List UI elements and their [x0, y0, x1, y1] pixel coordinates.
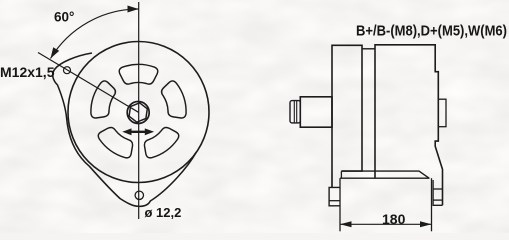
front bracket lower left edge — [331, 171, 333, 187]
outer circle alternator front — [68, 42, 209, 183]
svg-text:M12x1,5: M12x1,5 — [0, 64, 55, 80]
bracket silhouette (ear, left edge, foot, right tangent) — [53, 53, 197, 206]
slot lower right — [144, 127, 178, 157]
ear hole M12 — [64, 67, 71, 74]
main body outline — [375, 45, 443, 206]
slot lower left — [98, 127, 132, 157]
dimension arc 60 degrees — [51, 9, 139, 59]
base top edge — [340, 177, 430, 179]
arrowhead top of arc — [128, 6, 139, 13]
svg-text:180: 180 — [382, 211, 406, 227]
left step vertical — [340, 171, 342, 178]
centerline front view — [138, 2, 140, 219]
arrowhead bottom of arc — [51, 47, 60, 58]
notch floor between bracket and body — [362, 48, 375, 50]
diagonal 60-degree axis line — [38, 53, 139, 113]
left foot lug — [329, 187, 340, 205]
body bottom edge with chamfer — [341, 171, 429, 178]
svg-text:B+/B-(M8),D+(M5),W(M6): B+/B-(M8),D+(M5),W(M6) — [356, 24, 507, 40]
svg-text:ø 12,2: ø 12,2 — [145, 205, 182, 220]
slot upper right — [162, 81, 187, 118]
shaft nut — [290, 101, 300, 123]
base right edge / extension line — [431, 178, 433, 231]
shaft double arrow — [129, 131, 148, 133]
foot hole — [135, 191, 143, 199]
hub circle — [127, 102, 149, 124]
front bracket rectangle — [332, 45, 362, 187]
base left edge / extension line — [339, 178, 341, 231]
terminal block — [438, 99, 446, 127]
hub hexagon nut — [129, 103, 147, 122]
right foot lug — [433, 180, 442, 205]
svg-text:60°: 60° — [54, 10, 74, 25]
nut groove lines — [293, 101, 295, 123]
slot upper left — [91, 81, 116, 118]
slot top — [119, 64, 158, 84]
dimension line 180 — [340, 223, 432, 225]
shaft cylinder — [300, 97, 332, 127]
